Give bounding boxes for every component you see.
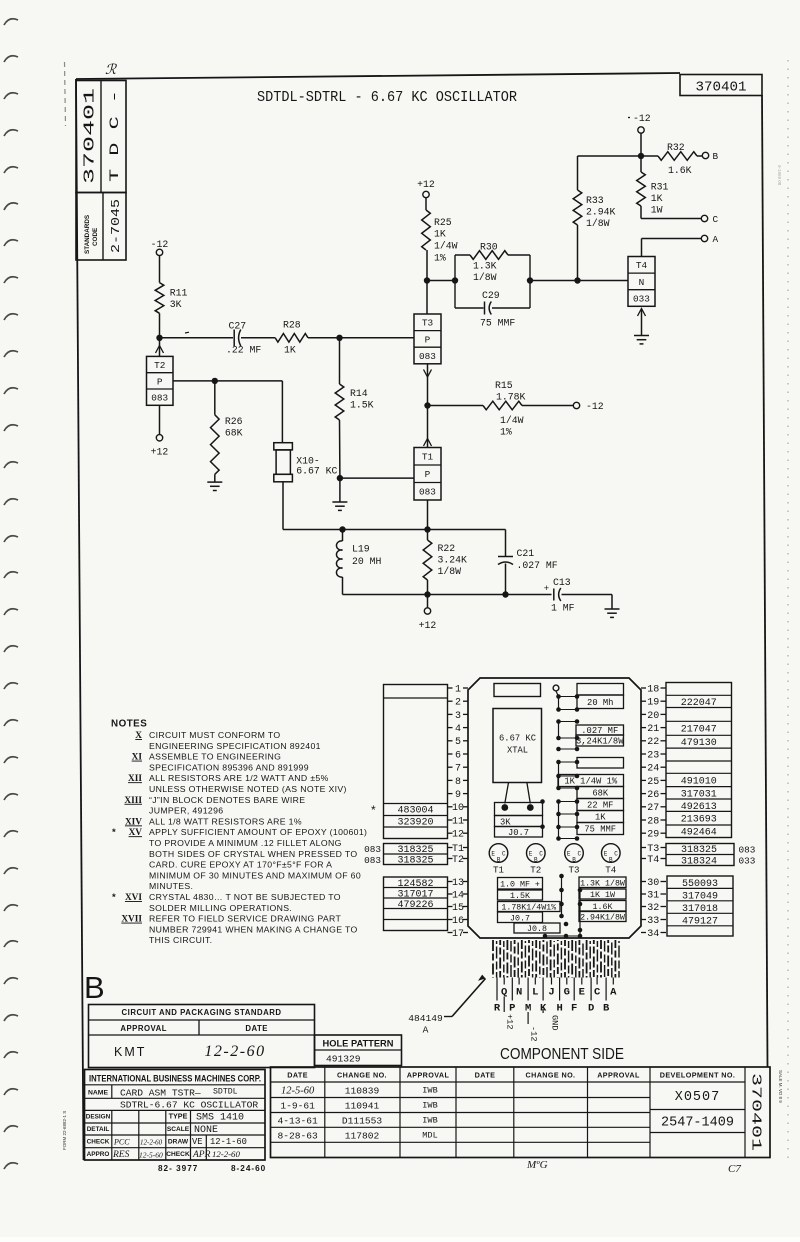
svg-text:28: 28 [647,816,659,827]
svg-text:J0.7: J0.7 [508,828,529,838]
svg-text:DATE: DATE [245,1024,268,1033]
note XII [128,773,329,784]
svg-text:T3: T3 [422,318,434,329]
ground below R26 [207,482,222,490]
left lower part boxes [384,877,448,931]
svg-text:6: 6 [455,750,461,761]
svg-text:1K: 1K [284,345,296,356]
svg-text:21: 21 [647,724,659,735]
svg-text:23: 23 [647,750,659,761]
crystal block on card [493,709,542,783]
svg-text:033: 033 [633,293,650,304]
svg-text:FORM 22-6882-1 S: FORM 22-6882-1 S [62,1111,67,1150]
svg-text:DETAIL: DETAIL [87,1126,110,1133]
svg-text:68K: 68K [225,428,243,439]
svg-text:+12: +12 [151,447,169,458]
circuit and packaging standard box [89,1005,315,1068]
svg-text:B: B [713,151,719,162]
svg-text:C7: C7 [728,1163,741,1175]
callout 484149 A with arrow [408,975,485,1036]
transistor T4 [628,257,655,307]
note XVI [112,892,341,903]
svg-text:2-7045: 2-7045 [110,199,123,253]
svg-text:HOLE PATTERN: HOLE PATTERN [323,1039,394,1049]
svg-text:E: E [567,851,571,858]
crystal X10 6.67 KC [274,443,338,482]
svg-text:SDTRL-6.67 KC OSCILLATOR: SDTRL-6.67 KC OSCILLATOR [120,1100,258,1111]
svg-text:XV: XV [129,828,143,838]
svg-text:117802: 117802 [345,1130,380,1141]
inductor L19 20 MH [336,530,381,595]
svg-text:DATE: DATE [287,1071,308,1080]
right part number column [666,683,732,839]
svg-text:1%: 1% [500,427,512,438]
node junction R28/R14/T3 [336,335,342,341]
note XV [112,827,367,838]
node junction L19 top [339,526,345,532]
svg-text:P: P [425,334,431,345]
note XI [132,752,282,763]
svg-text:1.3K 1/8W: 1.3K 1/8W [580,878,625,888]
svg-text:R32: R32 [667,142,685,153]
svg-text:1K: 1K [651,193,663,204]
svg-text:25: 25 [647,777,659,788]
power pin labels +12 -12 GND [504,997,559,1042]
rotated 370401 cell [748,1073,763,1151]
svg-text:R11: R11 [170,288,188,299]
wire [308,337,414,339]
svg-text:T4: T4 [636,260,648,271]
svg-text:1.0 MF +: 1.0 MF + [500,880,540,889]
card pad dots middle column [540,691,579,841]
svg-text:483004: 483004 [397,806,433,817]
resistor R22 3.24K 1/8W [423,530,467,595]
wire [427,280,455,282]
svg-text:SDTDL-SDTRL - 6.67 KC OSCILLAT: SDTDL-SDTRL - 6.67 KC OSCILLATOR [257,90,517,106]
svg-text:ENGINEERING SPECIFICATION 8924: ENGINEERING SPECIFICATION 892401 [149,741,321,751]
handwritten R mark [105,63,117,78]
binder margin marks [4,19,18,1169]
svg-text:22: 22 [647,737,659,748]
svg-text:-12: -12 [586,401,604,412]
svg-text:T2: T2 [530,865,541,876]
svg-text:T2: T2 [452,855,464,866]
svg-text:C: C [502,851,506,858]
svg-text:3,24K1/8W: 3,24K1/8W [576,737,624,747]
IBM title table [85,1070,266,1161]
svg-text:550093: 550093 [682,879,718,890]
svg-text:A: A [423,1025,429,1036]
svg-text:CHANGE NO.: CHANGE NO. [337,1071,387,1080]
svg-text:MINUTES.: MINUTES. [149,881,193,891]
svg-text:E: E [604,851,608,858]
node junction R22 bottom [424,591,430,597]
svg-text:T D C -: T D C - [107,90,122,182]
svg-text:492613: 492613 [681,802,717,813]
svg-text:R14: R14 [350,388,368,399]
svg-text:XVII: XVII [121,915,142,925]
svg-text:1K 1/4W 1%: 1K 1/4W 1% [564,777,618,787]
transistor T2 [147,356,174,405]
svg-text:8-24-60: 8-24-60 [231,1164,266,1173]
terminal C [701,214,718,225]
svg-text:CRYSTAL 4830… T NOT BE SUBJE: CRYSTAL 4830… T NOT BE SUBJECTED TO [149,892,341,902]
wire [641,218,701,220]
svg-text:1.6K: 1.6K [668,165,692,176]
terminal +12 below T2 [151,435,169,458]
svg-text:L19: L19 [352,544,370,555]
terminal -12 top right [628,113,651,133]
resistor R32 1.6K [641,142,702,176]
svg-text:CARD. CURE EPOXY AT 170°F±5°F: CARD. CURE EPOXY AT 170°F±5°F FOR A [149,860,332,870]
svg-text:MºG: MºG [526,1159,548,1171]
svg-text:STANDARDS: STANDARDS [84,215,91,254]
svg-text:E: E [529,851,533,858]
terminal -12 left [151,239,169,256]
svg-text:T4: T4 [647,855,659,866]
svg-text:6.67 KC: 6.67 KC [499,734,536,744]
svg-text:NONE: NONE [194,1125,218,1136]
node junction R14 bottom [337,475,343,481]
svg-text:J: J [548,987,554,999]
svg-text:SALE M. VD 8 9: SALE M. VD 8 9 [778,1070,783,1103]
svg-text:370401: 370401 [83,88,99,184]
part boxes T3 T4 right [666,844,734,868]
svg-text:UNLESS OTHERWISE NOTED (AS NOT: UNLESS OTHERWISE NOTED (AS NOTE XIV) [149,784,347,794]
svg-text:317018: 317018 [682,904,718,915]
svg-text:B: B [84,970,105,1005]
svg-text:479130: 479130 [681,738,717,749]
svg-text:9: 9 [455,790,461,801]
svg-text:DRAW: DRAW [168,1139,189,1146]
svg-text:12-2-60: 12-2-60 [204,1043,265,1060]
svg-text:N: N [639,277,645,288]
svg-text:1.5K: 1.5K [510,892,530,901]
svg-text:TYPE: TYPE [169,1112,188,1121]
capacitor C13 1 MF [544,577,575,614]
svg-text:15: 15 [452,903,464,914]
svg-text:3K: 3K [500,817,511,827]
svg-text:J0.7: J0.7 [510,914,530,923]
resistor R28 1K [275,320,308,356]
card pins 18-34 right [641,684,666,940]
svg-text:68K: 68K [592,789,609,799]
handwritten C7 mark [728,1163,741,1175]
svg-text:1.78K: 1.78K [496,392,526,403]
transistor T3 [414,314,441,364]
change record table [271,1067,771,1158]
svg-text:11: 11 [452,816,464,827]
svg-text:1/4W: 1/4W [500,415,524,426]
card box 3K [495,816,543,828]
svg-text:VE: VE [192,1137,203,1147]
svg-text:083: 083 [364,844,381,855]
svg-text:22 MF: 22 MF [587,801,613,811]
svg-text:PCC: PCC [113,1138,130,1147]
svg-text:B: B [534,857,538,864]
wire [578,155,642,157]
svg-text:16: 16 [452,916,464,927]
svg-text:20 MH: 20 MH [352,556,382,567]
svg-text:14: 14 [452,890,464,901]
svg-text:R31: R31 [651,182,669,193]
asterisk by 483004 [371,803,376,817]
card pins 1-17 left [448,684,469,940]
svg-text:XIV: XIV [125,817,142,827]
svg-text:*: * [371,803,376,817]
svg-text:C27: C27 [229,321,247,332]
svg-text:24: 24 [647,764,659,775]
svg-text:C29: C29 [482,290,500,301]
svg-text:XII: XII [128,774,142,784]
svg-text:P: P [425,469,431,480]
svg-text:1 MF: 1 MF [551,603,575,614]
card lower pad dots [543,874,583,939]
connector pin letters [494,978,617,1015]
resistor R26 68K [211,381,243,482]
svg-text:-12: -12 [529,1026,539,1041]
svg-text:17: 17 [452,929,464,940]
svg-text:318325: 318325 [681,845,717,856]
transistor T1 [414,448,441,501]
node junction R30 left [452,277,458,283]
terminal B [702,151,718,162]
card top circle pad [553,685,559,691]
svg-text:C: C [577,851,581,858]
svg-text:.22 MF: .22 MF [226,345,261,356]
tiny edge print left [62,1111,67,1150]
svg-text:APPLY SUFFICIENT AMOUNT OF EPO: APPLY SUFFICIENT AMOUNT OF EPOXY (100601… [149,827,367,837]
svg-text:CIRCUIT MUST CONFORM TO: CIRCUIT MUST CONFORM TO [149,730,280,740]
svg-text:R25: R25 [434,217,452,228]
svg-text:R22: R22 [438,543,456,554]
svg-text:1K 1W: 1K 1W [590,891,615,900]
svg-text:20 Mh: 20 Mh [587,698,613,708]
svg-text:370401: 370401 [696,81,747,96]
083 033 labels right [739,844,756,866]
svg-text:1/8W: 1/8W [473,272,497,283]
svg-text:XVI: XVI [125,893,142,903]
svg-text:10: 10 [452,803,464,814]
svg-text:30: 30 [647,878,659,889]
card lower-right value boxes [579,877,626,923]
resistor R14 1.5K [335,338,373,478]
svg-text:CHANGE NO.: CHANGE NO. [526,1071,576,1080]
svg-text:XI: XI [132,753,143,763]
wire [241,337,275,339]
svg-text:SDTDL: SDTDL [213,1088,238,1097]
resistor R25 1K 1/4W 1% [422,198,458,264]
svg-text:31: 31 [647,890,659,901]
svg-text:SMS 1410: SMS 1410 [196,1113,244,1124]
drawing number box 370401 top right [680,75,762,96]
svg-text:-12: -12 [633,113,651,124]
ground below R14 [332,478,347,510]
capacitor C27 .22 MF [226,321,261,356]
svg-text:KMT: KMT [114,1045,146,1059]
svg-text:213693: 213693 [681,815,717,826]
svg-text:MINIMUM OF 30 MINUTES AND MAXI: MINIMUM OF 30 MINUTES AND MAXIMUM OF 60 [149,870,361,880]
node junction C21 bottom [502,591,508,597]
svg-text:E: E [491,851,495,858]
svg-text:1: 1 [455,684,461,695]
svg-text:27: 27 [647,803,659,814]
svg-text:12-2-60: 12-2-60 [212,1149,240,1159]
svg-text:+: + [544,584,549,594]
svg-text:ASSEMBLE TO ENGINEERING: ASSEMBLE TO ENGINEERING [149,752,281,762]
wire [159,405,161,434]
svg-text:SOLDER MILLING OPERATIONS.: SOLDER MILLING OPERATIONS. [149,903,292,913]
svg-text:B: B [497,857,501,864]
svg-text:370401: 370401 [748,1073,763,1151]
svg-text:REFER TO FIELD SERVICE DRAWING: REFER TO FIELD SERVICE DRAWING PART [149,914,341,924]
wire [640,133,642,156]
svg-text:IWB: IWB [422,1101,437,1111]
svg-text:CODE: CODE [92,228,99,246]
svg-text:T3: T3 [647,844,659,855]
svg-text:APPROVAL: APPROVAL [407,1071,450,1080]
svg-text:R30: R30 [480,242,498,253]
svg-text:318324: 318324 [681,856,717,867]
svg-text:8: 8 [455,777,461,788]
svg-text:5: 5 [455,737,461,748]
right lower part boxes [667,876,733,936]
svg-text:491010: 491010 [681,776,717,787]
part boxes T1 T2 left [384,844,448,867]
svg-text:13: 13 [452,878,464,889]
wire T1 base row [340,477,414,479]
svg-text:P: P [157,376,163,387]
svg-text:82- 3977: 82- 3977 [158,1164,198,1173]
svg-text:+12: +12 [505,1014,515,1029]
svg-text:G: G [564,987,570,999]
note XIV [125,816,302,827]
svg-text:D: D [588,1003,594,1015]
svg-text:12-2-60: 12-2-60 [140,1139,163,1147]
note X [135,730,280,741]
svg-text:3: 3 [455,711,461,722]
svg-text:DEVELOPMENT NO.: DEVELOPMENT NO. [660,1071,736,1080]
svg-text:20: 20 [647,711,659,722]
margin dotted rule right [787,60,789,1160]
node junction R30 right [527,277,533,283]
svg-text:1/8W: 1/8W [438,566,462,577]
svg-text:DESIGN: DESIGN [86,1114,111,1121]
svg-text:484149: 484149 [408,1013,443,1024]
svg-text:CIRCUIT AND PACKAGING STANDARD: CIRCUIT AND PACKAGING STANDARD [122,1008,282,1017]
svg-text:1%: 1% [434,253,446,264]
svg-text:RES: RES [112,1150,130,1160]
COMPONENT SIDE label [500,1046,624,1063]
svg-text:R28: R28 [283,320,301,331]
svg-text:317049: 317049 [682,891,718,902]
big letter B [84,970,105,1005]
svg-text:8-28-63: 8-28-63 [277,1130,318,1141]
margin smudge line [65,62,66,126]
svg-text:491329: 491329 [326,1054,361,1065]
svg-text:9-1969 08: 9-1969 08 [777,165,782,186]
svg-text:N: N [516,987,522,999]
resistor R15 1.78K 1/4W 1% [428,380,574,438]
crystal pad box [495,803,543,816]
svg-text:479127: 479127 [682,916,718,927]
svg-text:222047: 222047 [681,698,717,709]
svg-text:XTAL: XTAL [507,746,528,756]
svg-text:1K: 1K [434,229,446,240]
svg-text:J0.8: J0.8 [527,925,547,934]
svg-text:2547-1409: 2547-1409 [661,1116,734,1131]
svg-text:L: L [532,987,538,999]
svg-text:IWB: IWB [422,1115,437,1125]
svg-text:083: 083 [739,844,756,855]
capacitor C21 .027 MF [498,530,558,595]
svg-text:R15: R15 [495,380,513,391]
svg-text:NOTES: NOTES [111,719,147,730]
svg-text:SPECIFICATION 895396 AND 89199: SPECIFICATION 895396 AND 891999 [149,762,309,772]
svg-text:C: C [539,851,543,858]
note XVII [121,914,341,925]
node junction R26 [212,378,218,384]
node junction R25/R30 [424,277,430,283]
collector arrow T3 [424,364,432,406]
tiny edge print right [778,1070,783,1103]
svg-text:C: C [614,851,618,858]
title [257,90,517,106]
svg-text:2.94K1/8W: 2.94K1/8W [580,913,625,923]
svg-text:1K: 1K [595,813,606,823]
svg-text:217047: 217047 [681,725,717,736]
node junction T1/R22 top [424,526,430,532]
svg-text:T1: T1 [452,844,464,855]
svg-text:323920: 323920 [397,818,433,829]
terminal +12 bottom [419,595,437,632]
svg-text:26: 26 [647,790,659,801]
svg-text:F: F [571,1003,577,1015]
crystal leads and pads [501,783,533,811]
svg-text:A: A [713,234,719,245]
emitter arrow T4 [638,309,646,336]
wire [282,482,284,530]
svg-text:318325: 318325 [397,856,433,867]
capacitor C29 75 MMF [455,290,530,329]
svg-text:-12: -12 [151,239,169,250]
svg-text:CHECK: CHECK [87,1139,110,1146]
emitter arrow T2 [156,338,164,357]
wire [160,337,234,339]
svg-text:75 MMF: 75 MMF [584,825,616,835]
wire T2 base row [173,380,282,382]
svg-text:T3: T3 [568,865,579,876]
svg-text:T2: T2 [154,360,165,371]
svg-text:ℛ: ℛ [105,63,117,78]
svg-text:“J”IN BLOCK DENOTES BARE WIRE: “J”IN BLOCK DENOTES BARE WIRE [149,795,305,805]
svg-text:6.67 KC: 6.67 KC [296,466,337,477]
resistor R31 1K 1W [637,156,669,219]
wire [159,313,161,338]
svg-text:B: B [603,1003,610,1015]
resistor R33 2.94K 1/8W [573,156,615,281]
svg-text:124582: 124582 [397,879,433,890]
svg-text:NAME: NAME [88,1090,108,1097]
svg-text:1/4W: 1/4W [434,241,458,252]
svg-text:CARD ASM TSTR—: CARD ASM TSTR— [120,1088,201,1099]
wire [642,238,702,240]
standards code sidebar [76,81,126,261]
svg-text:2.94K: 2.94K [586,207,616,218]
wire bottom bus [343,594,552,596]
card value boxes right column [558,684,624,835]
card box J0.7 upper [495,827,543,839]
